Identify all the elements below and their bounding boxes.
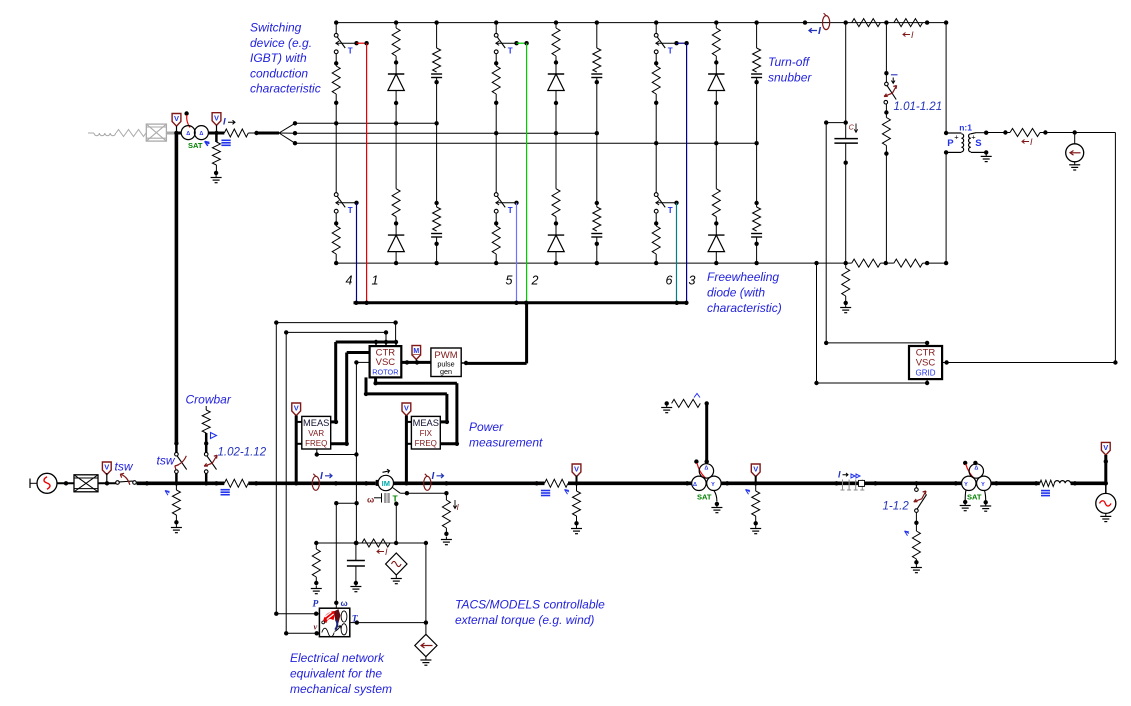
capacitor C3b (turn-off snubber)	[751, 233, 762, 235]
wire	[248, 132, 256, 134]
grounding marker (blue)	[541, 490, 550, 492]
svg-text:external torque (e.g. wind): external torque (e.g. wind)	[455, 613, 594, 627]
svg-text:ω: ω	[341, 598, 348, 608]
svg-text:diode (with: diode (with	[707, 286, 765, 300]
wire V3 stem (thick)	[295, 416, 298, 484]
svg-text:snubber: snubber	[768, 71, 812, 85]
voltage probe V5	[572, 464, 581, 477]
switch S2t (IGBT leg 2 upper, TACS controlled)	[494, 20, 498, 24]
svg-text:v: v	[314, 622, 318, 632]
wire phase rail C	[295, 142, 757, 144]
resistor Rn + ground (machine neutral)	[445, 493, 447, 500]
inactive source branch (greyed)	[88, 132, 94, 134]
wire	[395, 252, 397, 264]
source Tm (TACS torque, diamond)	[386, 553, 407, 575]
svg-text:2: 2	[531, 274, 539, 288]
wire main bus right end	[1071, 481, 1106, 485]
resistor Rdc4 + ground (DC mid)	[845, 263, 847, 268]
switch SW4 (1-1.2, time controlled)	[915, 483, 917, 488]
wire	[715, 252, 717, 264]
machine IM (DFIG induction machine)	[376, 480, 379, 486]
transformer T1 (rotor feed, SAT)	[181, 126, 195, 140]
transformer T2 (3-winding, SAT)	[699, 464, 713, 478]
svg-text:TACS/MODELS controllable: TACS/MODELS controllable	[455, 598, 605, 612]
wire control B	[286, 331, 386, 333]
svg-text:V: V	[1103, 443, 1108, 452]
resistor Rg (charging)	[1010, 129, 1040, 137]
resistor Rm2 (mech)	[362, 539, 390, 547]
svg-text:Y: Y	[711, 482, 715, 488]
wire main bus	[991, 481, 1040, 485]
capacitor C2b (turn-off snubber)	[591, 233, 602, 235]
source G1 (grid equivalent AC source)	[29, 479, 31, 489]
svg-text:tsw: tsw	[115, 460, 134, 474]
wire CTR to PWM (thick)	[401, 361, 431, 364]
wire main bus mid	[394, 481, 545, 485]
wire	[137, 481, 225, 485]
wire CTR bottom path 1 (thick)	[374, 377, 377, 383]
resistor Rg2 + ground (shunt)	[565, 490, 570, 495]
svg-text:FREQ: FREQ	[415, 439, 437, 448]
svg-text:T: T	[348, 47, 353, 56]
gate wire 6 (lower switch)	[676, 203, 678, 303]
diode D2b (freewheeling)	[548, 234, 564, 236]
svg-text:I: I	[320, 471, 323, 482]
svg-text:IM: IM	[382, 479, 390, 488]
wire P winding feed	[945, 23, 947, 133]
ground (S winding)	[985, 152, 987, 156]
diode D3b (freewheeling)	[708, 234, 724, 236]
gate wire 4 (lower switch)	[356, 203, 358, 303]
switch S3t (IGBT leg 3 upper, TACS controlled)	[654, 20, 658, 24]
svg-text:P: P	[947, 138, 954, 149]
wire CTR bottom path 2 (thick)	[365, 377, 368, 394]
voltage probe V6	[751, 464, 760, 477]
wire	[208, 132, 224, 135]
transformer T2 neutral ground	[714, 491, 717, 502]
svg-text:conduction: conduction	[250, 66, 308, 80]
svg-text:I: I	[432, 471, 435, 482]
machine neutral wire	[393, 488, 401, 494]
svg-text:measurement: measurement	[469, 436, 543, 450]
resistor R2cb (turn-off snubber)	[596, 133, 598, 207]
resistor R1st (conduction characteristic)	[332, 66, 340, 94]
wire DC cap branch	[845, 23, 847, 139]
resistor R1dt (diode series)	[394, 20, 398, 24]
diode D1t (freewheeling)	[388, 73, 404, 75]
svg-text:SAT: SAT	[967, 493, 982, 502]
svg-text:VSC: VSC	[916, 358, 936, 369]
svg-text:T: T	[348, 206, 353, 215]
resistor R2st (conduction characteristic)	[492, 66, 500, 94]
wire bottom DC rail	[336, 262, 852, 264]
svg-text:Δ: Δ	[693, 482, 697, 488]
node DC+	[844, 20, 848, 24]
saturation mark (red)	[963, 461, 967, 465]
svg-text:Turn-off: Turn-off	[768, 55, 811, 69]
RL element (grid impedance)	[1040, 480, 1055, 486]
switch S3b (IGBT leg 3 lower, TACS controlled)	[655, 143, 657, 192]
saturation mark (red)	[187, 115, 190, 128]
svg-text:ROTOR: ROTOR	[372, 368, 398, 377]
resistor R1ct (turn-off snubber)	[434, 20, 438, 24]
wire omega feedback	[334, 501, 338, 505]
svg-text:+: +	[954, 133, 959, 142]
wire top DC rail	[336, 22, 946, 24]
wire	[395, 91, 397, 124]
svg-text:Electrical network: Electrical network	[290, 651, 385, 665]
svg-text:Freewheeling: Freewheeling	[707, 270, 779, 284]
voltage probe V7	[1101, 442, 1110, 455]
wire	[98, 482, 116, 484]
resistor R2sb (conduction characteristic)	[492, 226, 500, 254]
MODELS probe M	[412, 346, 421, 355]
wire v input	[285, 332, 287, 633]
controller U3: CTR VSC GRID	[909, 346, 942, 379]
gate wire 3 (upper switch)	[677, 42, 687, 44]
resistor Rdc1 (top)	[852, 19, 881, 27]
wire phase rail A	[295, 122, 437, 124]
measurement M2: MEAS FIX FREQ	[411, 416, 440, 449]
voltage probe V3	[292, 403, 301, 416]
svg-text:ω: ω	[367, 495, 374, 505]
wire T port to external torque	[425, 543, 427, 634]
diode D1b (freewheeling)	[388, 234, 404, 236]
resistor Rsh + ground (rotor shunt)	[215, 133, 218, 142]
capacitor C2t (turn-off snubber)	[591, 73, 602, 75]
diode D3t (freewheeling)	[708, 73, 724, 75]
wire main bus left-mid	[248, 481, 375, 485]
capacitor C1b (turn-off snubber)	[431, 233, 442, 235]
svg-text:Δ: Δ	[186, 131, 190, 137]
wire control C (thick)	[336, 341, 396, 344]
wire main bus	[568, 481, 692, 485]
mechanical network wire	[316, 542, 426, 544]
svg-text:P: P	[313, 600, 319, 610]
svg-text:5: 5	[506, 274, 513, 288]
svg-text:S: S	[975, 138, 981, 149]
svg-text:Crowbar: Crowbar	[186, 393, 232, 407]
resistor Rdc3 (chopper)	[884, 110, 888, 114]
svg-text:mechanical system: mechanical system	[290, 682, 392, 696]
svg-text:equivalent for the: equivalent for the	[290, 667, 382, 681]
resistor R3st (conduction characteristic)	[652, 66, 660, 94]
svg-text:T: T	[508, 206, 513, 215]
svg-text:gen: gen	[440, 367, 452, 376]
svg-text:MEAS: MEAS	[303, 418, 329, 428]
wire	[987, 132, 1010, 134]
capacitor C3t (turn-off snubber)	[751, 73, 762, 75]
resistor R3ct (turn-off snubber)	[754, 20, 758, 24]
grounding marker (blue)	[221, 139, 230, 141]
svg-text:V: V	[574, 465, 579, 474]
svg-text:Power: Power	[469, 420, 504, 434]
gate bus wire	[354, 301, 687, 304]
machine mechanical box (wind turbine model)	[319, 608, 349, 637]
resistor R3sb (conduction characteristic)	[652, 226, 660, 254]
wire	[335, 254, 337, 263]
switch S2b (IGBT leg 2 lower, TACS controlled)	[495, 133, 497, 192]
wire control E (speed feedback)	[354, 360, 358, 364]
wire	[495, 94, 497, 133]
resistor R1cb (turn-off snubber)	[436, 123, 438, 207]
current probe I2	[424, 476, 431, 490]
svg-text:Y: Y	[981, 482, 985, 488]
current source Ig (controlled)	[1074, 133, 1076, 144]
svg-text:V: V	[214, 113, 219, 122]
svg-text:V: V	[753, 465, 758, 474]
wire phase fan-out	[279, 123, 295, 133]
resistor Rg3 + ground (shunt)	[746, 490, 751, 495]
resistor Rdc2 (top)	[894, 19, 923, 27]
wire MEAS VAR bottom pin	[316, 449, 318, 455]
svg-text:V: V	[174, 114, 179, 123]
voltage probe V1	[102, 462, 111, 475]
svg-text:Y: Y	[964, 482, 968, 488]
gate wire 5 (lower switch)	[516, 203, 518, 303]
svg-text:Δ: Δ	[199, 131, 203, 137]
svg-text:+: +	[971, 133, 976, 142]
wire	[1040, 132, 1115, 134]
wire	[655, 254, 657, 263]
resistor R2db (diode series)	[555, 133, 557, 189]
resistor Rg1 + ground (left shunt)	[165, 491, 170, 496]
voltage probe V2	[212, 113, 221, 126]
ground (current source)	[1074, 162, 1076, 165]
switch SWdc (bypass, 1.01-1.21)	[885, 23, 887, 83]
voltage probe V4	[402, 403, 411, 416]
wire left DFIG drop (thick)	[175, 132, 179, 444]
resistor R1sb (conduction characteristic)	[332, 226, 340, 254]
wire T output	[350, 622, 358, 624]
svg-text:1.01-1.21: 1.01-1.21	[894, 101, 943, 113]
resistor Rdc2b (bottom)	[894, 259, 923, 267]
wire	[57, 482, 74, 484]
resistor R2ct (turn-off snubber)	[595, 20, 599, 24]
current probe (DC rail)	[803, 20, 807, 24]
wire control D (thick)	[347, 351, 370, 354]
svg-text:1.02-1.12: 1.02-1.12	[218, 447, 267, 459]
resistor Rdc1b (bottom)	[852, 259, 881, 267]
resistor R1db (diode series)	[395, 123, 397, 188]
svg-text:MEAS: MEAS	[413, 418, 439, 428]
svg-text:1-1.2: 1-1.2	[883, 501, 910, 513]
wire to CTR VSC GRID sense	[826, 122, 846, 124]
transformer TR1 n:1 (P winding)	[946, 132, 961, 134]
wire phase rail B	[295, 132, 597, 134]
wire control A	[276, 322, 395, 324]
wire	[495, 254, 497, 263]
svg-text:T: T	[668, 47, 673, 56]
svg-text:T: T	[508, 47, 513, 56]
svg-text:4: 4	[346, 274, 353, 288]
switch S1b (IGBT leg 1 lower, TACS controlled)	[335, 123, 337, 192]
measurement M1: MEAS VAR FREQ	[302, 416, 331, 449]
svg-text:V: V	[104, 463, 109, 472]
svg-text:SAT: SAT	[697, 493, 712, 502]
transformer TR1 (S winding)	[969, 134, 971, 152]
gate wire 2 (upper switch)	[517, 42, 527, 44]
svg-text:characteristic): characteristic)	[707, 301, 782, 315]
transformer T3 neutral grounds	[964, 490, 967, 500]
wire T port drop	[394, 502, 398, 506]
resistor R3dt (diode series)	[714, 20, 718, 24]
ground (grid source)	[1105, 513, 1107, 516]
svg-text:Switching: Switching	[250, 21, 302, 35]
wire	[335, 94, 337, 123]
svg-text:6: 6	[666, 274, 673, 288]
resistor Rt + ground (transformer tertiary)	[665, 401, 669, 405]
svg-text:M: M	[413, 348, 419, 355]
svg-text:I: I	[223, 117, 226, 128]
controller U1: CTR VSC ROTOR	[370, 346, 402, 377]
wire V4 stem (thick)	[405, 416, 408, 484]
saturation mark (red)	[697, 463, 706, 478]
svg-text:device (e.g.: device (e.g.	[250, 36, 312, 50]
capacitor Cm (inertia)	[355, 543, 357, 561]
diode D2t (freewheeling)	[548, 73, 564, 75]
resistor Rg4 + ground	[915, 513, 917, 531]
node/wire rotor bus	[176, 132, 181, 135]
wire	[655, 94, 657, 143]
svg-text:IGBT) with: IGBT) with	[250, 51, 307, 65]
switch SW1 (tsw, time controlled, closed)	[116, 481, 120, 485]
wire P input	[275, 323, 277, 614]
svg-text:tsw: tsw	[157, 454, 176, 468]
switch SW3 (crowbar, 1.02-1.12)	[205, 443, 208, 452]
wire	[715, 91, 717, 144]
gate wire 1 (upper switch)	[357, 42, 367, 44]
wire PWM output (thick)	[461, 362, 466, 364]
source Text (TACS/MODELS external torque, diamond)	[415, 634, 437, 656]
resistor R3cb (turn-off snubber)	[756, 143, 758, 207]
svg-text:3: 3	[689, 274, 696, 288]
transformer T3 (grid step-up, SAT)	[969, 464, 983, 478]
svg-text:n:1: n:1	[959, 123, 972, 133]
svg-text:VAR: VAR	[308, 429, 324, 438]
capacitor C1t (turn-off snubber)	[431, 73, 442, 75]
resistor Rf (rotor series)	[224, 129, 248, 137]
source G2 (grid AC source)	[1105, 483, 1107, 493]
wire	[555, 91, 557, 134]
resistor Rb1 (series in bus)	[224, 479, 248, 487]
grounding marker (blue)	[221, 489, 230, 491]
voltage probe V0	[172, 114, 181, 127]
svg-text:V: V	[404, 404, 409, 413]
current probe I1	[312, 476, 319, 490]
wire tertiary drop (thick)	[705, 403, 708, 463]
svg-text:1: 1	[372, 274, 379, 288]
wire	[555, 252, 557, 264]
svg-text:V: V	[294, 404, 299, 413]
wire right loop	[1114, 133, 1116, 363]
svg-text:SAT: SAT	[188, 141, 203, 150]
wire main bus	[721, 481, 962, 485]
svg-text:VSC: VSC	[376, 357, 396, 368]
resistor Rm + ground (mech damping)	[315, 543, 317, 549]
resistor R3db (diode series)	[715, 143, 717, 189]
generator U2: PWM pulse gen	[431, 348, 461, 377]
svg-text:C: C	[849, 123, 855, 132]
wire to CTR VSC GRID lower sense	[816, 263, 818, 383]
svg-text:Δ: Δ	[704, 466, 708, 472]
svg-text:GRID: GRID	[916, 368, 936, 377]
switch S1t (IGBT leg 1 upper, TACS controlled)	[334, 20, 338, 24]
svg-text:FIX: FIX	[420, 429, 433, 438]
resistor Rb2 (series in bus)	[545, 479, 569, 487]
svg-text:characteristic: characteristic	[250, 82, 321, 96]
svg-text:FREQ: FREQ	[305, 439, 327, 448]
line/cable L1 (box symbol)	[74, 475, 98, 492]
resistor R2dt (diode series)	[554, 20, 558, 24]
switch SW2 (tsw drop, time controlled)	[174, 441, 178, 445]
resistor Rcb (crowbar)	[205, 406, 207, 410]
svg-text:T: T	[668, 206, 673, 215]
svg-text:Δ: Δ	[974, 466, 978, 472]
